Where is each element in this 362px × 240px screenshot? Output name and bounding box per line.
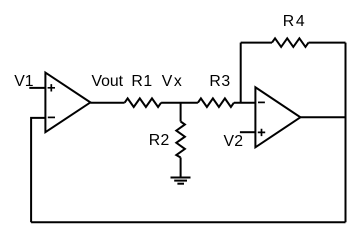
svg-text:V2: V2 bbox=[224, 133, 244, 150]
wire bottom feedback bbox=[31, 221, 345, 223]
svg-text:R4: R4 bbox=[283, 13, 307, 30]
wire R2 to ground bbox=[180, 158, 182, 178]
wire U1 inverting feedback: left vertical bbox=[31, 118, 45, 222]
op-amp U2 bbox=[255, 87, 300, 147]
wire R4 to right vertical bbox=[309, 42, 346, 44]
resistor R2 bbox=[176, 122, 185, 158]
wire node Vx down to R2 bbox=[180, 103, 182, 122]
resistor R3 bbox=[198, 98, 234, 107]
svg-text:V1: V1 bbox=[14, 73, 34, 90]
wire R3 to U2 inverting input bbox=[234, 102, 256, 104]
wire V1 lead bbox=[29, 87, 45, 89]
svg-text:R1: R1 bbox=[131, 73, 152, 90]
wire junction up to R4 bbox=[240, 43, 242, 103]
resistor R1 bbox=[125, 98, 162, 107]
wire U2 output bbox=[300, 116, 345, 118]
wire V2 lead bbox=[240, 131, 256, 133]
ground bbox=[171, 178, 191, 184]
wire R1 to R3 (node Vx) bbox=[161, 102, 198, 104]
resistor R4 bbox=[272, 38, 309, 47]
wire top to R4 bbox=[241, 42, 272, 44]
wire right vertical bbox=[345, 43, 347, 223]
svg-text:Vx: Vx bbox=[162, 73, 184, 90]
svg-text:R2: R2 bbox=[149, 132, 170, 149]
svg-text:Vout: Vout bbox=[91, 73, 123, 90]
svg-text:R3: R3 bbox=[209, 73, 230, 90]
wire U1 output to R1 bbox=[90, 102, 124, 104]
op-amp U1 bbox=[45, 73, 90, 133]
